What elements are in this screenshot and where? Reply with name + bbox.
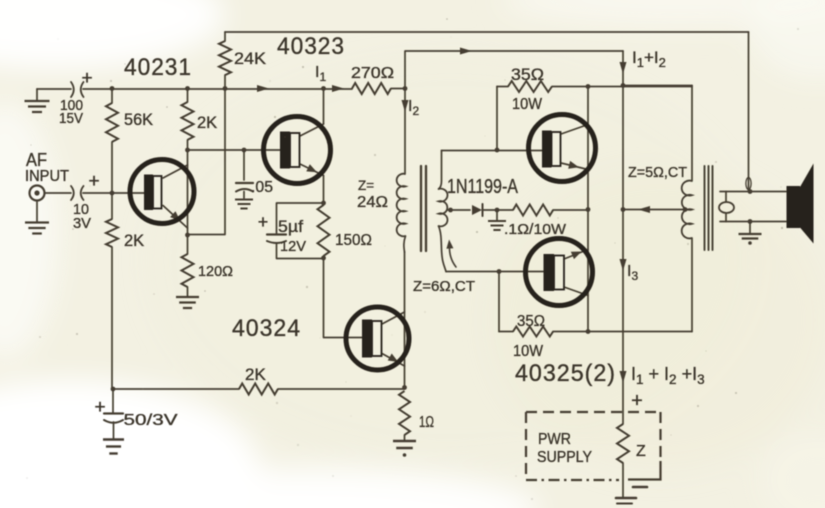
svg-text:15V: 15V: [59, 111, 83, 127]
svg-text:+: +: [81, 68, 92, 89]
svg-text:2K: 2K: [245, 365, 266, 384]
svg-text:Z=6Ω,CT: Z=6Ω,CT: [413, 278, 475, 295]
svg-text:40325(2): 40325(2): [515, 360, 616, 387]
svg-text:Z=: Z=: [358, 178, 374, 193]
svg-text:PWR: PWR: [538, 431, 571, 448]
svg-text:2K: 2K: [197, 114, 217, 132]
svg-text:10W: 10W: [513, 343, 544, 360]
svg-text:120Ω: 120Ω: [198, 263, 233, 280]
svg-text:40231: 40231: [124, 54, 192, 81]
svg-text:10W: 10W: [512, 96, 542, 113]
svg-text:AF: AF: [26, 150, 47, 170]
svg-text:12V: 12V: [280, 239, 306, 255]
svg-text:35Ω: 35Ω: [511, 65, 544, 84]
svg-text:SUPPLY: SUPPLY: [537, 449, 592, 466]
svg-text:2K: 2K: [124, 232, 144, 250]
svg-text:24Ω: 24Ω: [357, 194, 388, 211]
svg-text:Z=5Ω,CT: Z=5Ω,CT: [628, 164, 687, 181]
svg-text:24K: 24K: [234, 49, 267, 68]
svg-text:40324: 40324: [232, 315, 301, 342]
svg-text:40323: 40323: [277, 33, 345, 60]
svg-text:50/3V: 50/3V: [124, 412, 178, 429]
svg-text:150Ω: 150Ω: [335, 232, 372, 249]
svg-text:270Ω: 270Ω: [351, 65, 394, 82]
svg-text:35Ω: 35Ω: [517, 313, 545, 330]
svg-text:INPUT: INPUT: [25, 168, 70, 185]
svg-text:+: +: [94, 397, 105, 418]
svg-text:+: +: [88, 171, 99, 192]
svg-text:1Ω: 1Ω: [419, 414, 434, 431]
svg-text:+: +: [258, 212, 269, 232]
svg-text:+: +: [631, 390, 643, 412]
svg-text:.1Ω/10W: .1Ω/10W: [504, 221, 567, 238]
svg-text:56K: 56K: [124, 111, 153, 129]
svg-text:1N1199-A: 1N1199-A: [447, 176, 519, 198]
svg-text:5µf: 5µf: [278, 218, 303, 236]
svg-text:3V: 3V: [73, 216, 91, 232]
svg-text:Z: Z: [636, 443, 646, 460]
svg-text:.05: .05: [251, 179, 273, 196]
